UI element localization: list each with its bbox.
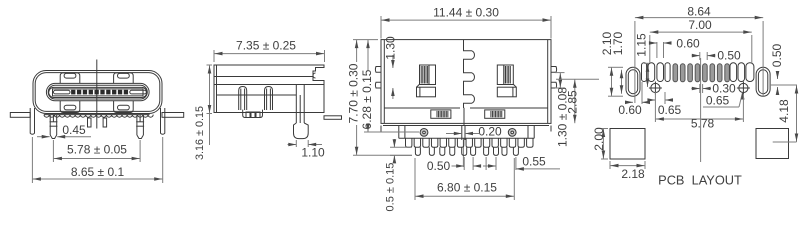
dimension 1.30 +/- 0.08 right [555, 73, 570, 147]
dimension 8.64 [635, 5, 763, 104]
svg-text:0.65: 0.65 [658, 103, 682, 117]
dimension 0.55 [516, 155, 560, 171]
front view left side tab [10, 113, 30, 118]
dimension 0.50 right rotated [770, 43, 784, 95]
front view left outer leg [30, 108, 34, 134]
svg-text:0.45: 0.45 [62, 123, 86, 137]
dimension 0.20 [446, 125, 502, 139]
top view through-hole pins [415, 147, 518, 155]
top view left contact block hatched [417, 65, 436, 97]
svg-text:11.44 ± 0.30: 11.44 ± 0.30 [433, 6, 499, 20]
top view body [381, 40, 551, 126]
dimension 1.15 [635, 33, 650, 87]
dimension 0.60 bottom left [618, 82, 650, 117]
top view internal shelf line [384, 107, 547, 109]
svg-text:7.70 ± 0.30: 7.70 ± 0.30 [347, 63, 361, 123]
svg-text:1.30: 1.30 [384, 36, 398, 60]
dimension 1.70 [611, 31, 625, 93]
dimension 3.16 +/- 0.15 [194, 65, 212, 160]
front view left shell pin 0.45 [50, 115, 58, 139]
front view center pegs [88, 118, 107, 127]
dimension 2.00 [592, 127, 608, 159]
side view rear bracket leg [294, 85, 309, 139]
dimension 0.50 slot pitch [692, 49, 741, 63]
dimension 0.30 center gap [691, 82, 736, 96]
top view center seam tab [462, 126, 465, 168]
svg-text:0.5 ± 0.15: 0.5 ± 0.15 [385, 163, 397, 212]
svg-text:1.15: 1.15 [635, 33, 649, 57]
top view seam tail [463, 108, 465, 126]
svg-text:0.65: 0.65 [706, 94, 730, 108]
front view bottom weld tabs with ovals [60, 101, 133, 113]
svg-text:PCB LAYOUT: PCB LAYOUT [658, 173, 742, 188]
svg-text:0.60: 0.60 [618, 103, 642, 117]
svg-text:0.20: 0.20 [478, 125, 502, 139]
svg-text:0.50: 0.50 [770, 43, 784, 67]
pcb hollow slots left [642, 63, 671, 82]
svg-text:8.65 ± 0.1: 8.65 ± 0.1 [71, 165, 125, 179]
dimension 0.50 pin pitch [427, 157, 496, 173]
dimension 7.00 [650, 18, 752, 63]
pcb mounting holes [649, 82, 750, 95]
side view body [214, 65, 324, 113]
svg-text:0.60: 0.60 [676, 37, 700, 51]
svg-text:3.16 ± 0.15: 3.16 ± 0.15 [194, 106, 206, 160]
side view bottom tray [243, 110, 263, 118]
dimension 6.80 +/- 0.15 [415, 158, 514, 200]
top view comb standoffs [406, 138, 534, 147]
svg-text:2.85: 2.85 [565, 90, 579, 114]
top view lower small hatched blocks [431, 110, 505, 118]
dimension 5.78 pcb [655, 95, 743, 131]
dimension 0.45 [37, 123, 91, 139]
front view right shell pin [136, 115, 144, 139]
svg-text:7.00: 7.00 [688, 18, 712, 32]
front view mouth opening [46, 83, 149, 100]
top view shell rivet holes [420, 129, 516, 137]
side view rear pin [324, 116, 342, 120]
svg-text:4.18: 4.18 [777, 99, 791, 123]
svg-text:8.64: 8.64 [687, 5, 711, 19]
pcb centerline [700, 58, 702, 162]
dimension 5.78 +/- 0.05 [53, 140, 140, 162]
svg-text:2.18: 2.18 [621, 167, 645, 181]
dimension 2.85 [556, 79, 599, 123]
dimension 8.65 +/- 0.1 [32, 137, 162, 183]
pcb right solder square [756, 129, 789, 159]
svg-text:6.80 ± 0.15: 6.80 ± 0.15 [437, 181, 497, 195]
dimension 0.5 +/- 0.15 [385, 139, 413, 211]
pcb right oval pad [756, 67, 770, 96]
svg-text:1.10: 1.10 [301, 146, 325, 160]
top view left edge tabs [375, 67, 381, 89]
dimension 0.65 left [647, 92, 681, 117]
front view top weld tabs with ovals [60, 73, 133, 83]
svg-text:6.28 ± 0.15: 6.28 ± 0.15 [360, 69, 374, 129]
dimension 1.10 [288, 140, 326, 160]
svg-text:0.50: 0.50 [427, 159, 451, 173]
side view notch bump [313, 73, 316, 78]
top view center seam zigzag [464, 40, 475, 108]
svg-text:0.50: 0.50 [717, 49, 741, 63]
svg-text:2.00: 2.00 [592, 127, 606, 151]
dimension 7.35 +/- 0.25 [214, 39, 325, 63]
pcb gray slots [673, 64, 729, 82]
svg-text:1.70: 1.70 [611, 31, 625, 55]
side view pegs [239, 87, 273, 111]
top view bottom strip [381, 126, 551, 139]
top view right contact block hatched [497, 65, 516, 97]
front view serrated crimp teeth [44, 115, 153, 118]
dimension 7.70 +/- 0.30 [347, 40, 413, 156]
front view right side tab [162, 113, 184, 118]
pcb left oval pad [626, 67, 640, 96]
svg-text:5.78 ± 0.05: 5.78 ± 0.05 [67, 143, 127, 157]
dimension 2.18 [610, 161, 645, 181]
front view centerline [96, 60, 98, 129]
dimension 0.65 right leader [703, 92, 745, 108]
front view right outer leg [161, 108, 165, 134]
front view outer shell [33, 71, 162, 114]
pcb left solder square [610, 129, 645, 160]
dimension 11.44 +/- 0.30 [381, 6, 551, 39]
dimension 0.60 slot [649, 37, 700, 59]
dimension 1.30 left [384, 36, 398, 99]
svg-text:7.35 ± 0.25: 7.35 ± 0.25 [236, 39, 296, 53]
svg-text:5.78: 5.78 [691, 117, 715, 131]
svg-text:0.55: 0.55 [522, 155, 546, 169]
dimension 4.18 [770, 85, 798, 142]
pcb hollow slots right [730, 63, 754, 82]
front view tongue with contacts [49, 87, 147, 97]
dimension 6.28 +/- 0.15 [360, 40, 419, 132]
dimension 2.10 [600, 31, 623, 96]
top view right edge tabs [551, 67, 557, 89]
